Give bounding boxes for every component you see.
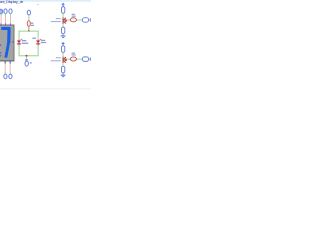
- wire loop top: [19, 31, 39, 32]
- bottom faint sheet line: [0, 88, 91, 89]
- probe X5 (bottom): [4, 64, 7, 79]
- probe X1 ring: [25, 61, 28, 66]
- lamp D3 (red oval): [70, 57, 76, 61]
- LED1 label: [22, 40, 29, 44]
- resistor R1: [62, 7, 65, 14]
- wire Q1-R3: [63, 24, 64, 27]
- wire LED2 to loop bottom: [38, 46, 39, 57]
- wire probe to D1: [28, 15, 29, 21]
- probe X6 (bottom): [9, 64, 12, 79]
- ground 1: [61, 35, 66, 38]
- wire R4-Q2: [63, 53, 64, 57]
- transistor Q1: [63, 17, 66, 24]
- wire D2-R2: [77, 20, 83, 21]
- resistor R3: [62, 27, 65, 34]
- probe X3: [4, 9, 7, 24]
- LED2: [36, 39, 41, 45]
- LED1: [17, 39, 22, 45]
- display digit 7: [1, 27, 10, 58]
- lamp D1 (red oval): [27, 21, 30, 27]
- LED loop: probe ring top: [27, 10, 30, 15]
- probe X2 stem: [1, 14, 2, 24]
- wire D3-R5: [77, 59, 83, 60]
- wire Q2-D3: [67, 59, 71, 60]
- transistor Q2: [63, 57, 66, 64]
- wire R1-Q1: [63, 13, 64, 17]
- resistor R6: [62, 66, 65, 73]
- D1 label: [31, 23, 34, 26]
- wire loop left: [19, 31, 20, 38]
- seven-segment display U1 body: [0, 25, 14, 62]
- D3 label: [72, 53, 76, 56]
- ground 2: [61, 75, 66, 78]
- probe X4: [9, 9, 12, 24]
- junction bottom: [26, 55, 28, 57]
- junction top: [28, 30, 30, 32]
- R5 stub: [89, 59, 91, 60]
- R3 stem: [63, 34, 64, 36]
- background: [0, 0, 91, 91]
- R2 stub: [89, 20, 91, 21]
- D2 label: [72, 14, 76, 17]
- D1 lead: [27, 27, 30, 31]
- resistor R2: [82, 18, 88, 23]
- display right pin: [12, 41, 13, 43]
- display top pins: [1, 23, 12, 25]
- Q1 labels: [51, 18, 61, 22]
- Q2 labels: [51, 57, 61, 61]
- svg-text:ani_Display_cir: ani_Display_cir: [0, 0, 24, 4]
- wire Q2-R6: [63, 63, 64, 66]
- resistor R5: [82, 57, 88, 62]
- probe X1 label: [30, 62, 32, 63]
- R6 stem: [63, 73, 64, 75]
- VCC arrow 1: [61, 3, 65, 7]
- wire loop right: [38, 31, 39, 38]
- top light band: [0, 0, 91, 2]
- resistor R4: [62, 46, 65, 53]
- probe X2 (top-left, clipped): [0, 9, 3, 14]
- wire LED1 to loop bottom: [19, 46, 20, 57]
- display left pin stubs: [0, 44, 1, 56]
- VCC arrow 2: [61, 42, 65, 46]
- speck: [37, 4, 38, 5]
- probe X1 stem: [26, 56, 27, 59]
- display bottom pins: [5, 61, 11, 63]
- lamp D2 (red oval): [70, 18, 76, 22]
- LED2 labels: [32, 38, 46, 44]
- wire Q1-D2: [67, 20, 71, 21]
- wire loop bottom: [19, 55, 39, 56]
